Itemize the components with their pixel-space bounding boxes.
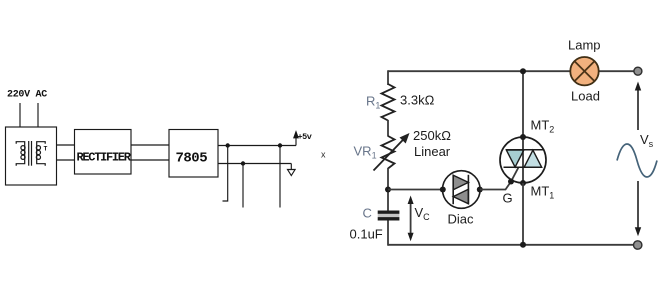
Vs arrow top [635,82,641,131]
wire transformer to rectifier 2 [57,159,75,161]
ground [288,164,296,176]
artifact x mark [321,150,326,160]
capacitor C [378,211,400,221]
label 220V AC [7,90,47,101]
wire 7805 output top [218,145,296,147]
svg-text:0.1uF: 0.1uF [350,227,383,242]
transformer T windings [16,141,45,166]
wire AC lead 1 [19,103,21,127]
node cap junction [385,187,391,193]
label 7805 [176,151,208,167]
node gate [508,179,514,185]
node out A [226,143,230,147]
wire stub A [223,146,228,202]
svg-text:Diac: Diac [448,212,475,227]
label RECTIFIER [77,151,132,165]
wire to diac [388,189,443,191]
wire 7805 output second [218,163,291,165]
label T [44,146,48,153]
wire MT1 [522,183,524,245]
node out B [278,143,282,147]
terminal top [634,67,642,75]
node MT1 circle [520,180,526,186]
svg-text:T: T [44,146,48,153]
svg-text:C: C [363,206,372,221]
potentiometer VR1 [374,133,410,171]
diac D1 [443,171,481,209]
node out C [241,161,245,165]
svg-text:RECTIFIER: RECTIFIER [77,151,132,165]
wire rail mid [387,120,389,137]
svg-text:220V AC: 220V AC [7,90,47,101]
node MT1 bottom [520,242,526,248]
wire bottom [388,244,638,246]
wire AC lead 2 [37,103,39,127]
node MT2 top [520,68,526,74]
wire rail bottom [387,221,389,246]
lamp [570,57,598,85]
triac Q1 [500,137,546,183]
+5v arrow [294,131,299,145]
svg-text:+5v: +5v [298,132,312,142]
Vs arrow bottom [635,181,641,236]
terminal bottom [634,241,642,249]
source sine [617,144,657,177]
Vc arrow [408,196,414,242]
node MT2 circle [520,134,526,140]
label +5v [298,132,312,142]
wire left rail top [387,70,389,85]
node diac right [477,187,483,193]
wire rectifier to 7805 bottom [131,159,169,161]
wire stub C [242,164,244,208]
node diac left [440,187,446,193]
svg-text:Load: Load [571,89,600,104]
wire transformer to rectifier 1 [57,144,75,146]
svg-text:G: G [503,191,513,206]
wire gate [480,167,519,189]
wire rail lower [387,168,389,211]
wire MT2 [522,71,524,137]
wire top [388,70,638,72]
svg-text:x: x [321,150,326,160]
regulator 7805 block [169,130,218,178]
wire rectifier to 7805 top [131,144,169,146]
rectifier block [75,130,132,175]
svg-text:250kΩ: 250kΩ [413,128,451,143]
svg-text:3.3kΩ: 3.3kΩ [400,93,435,108]
transformer T box [6,127,57,185]
svg-text:7805: 7805 [176,151,208,167]
resistor R1 [382,84,395,121]
svg-text:Lamp: Lamp [568,38,601,53]
svg-text:Linear: Linear [414,144,451,159]
wire stub B [279,146,281,208]
